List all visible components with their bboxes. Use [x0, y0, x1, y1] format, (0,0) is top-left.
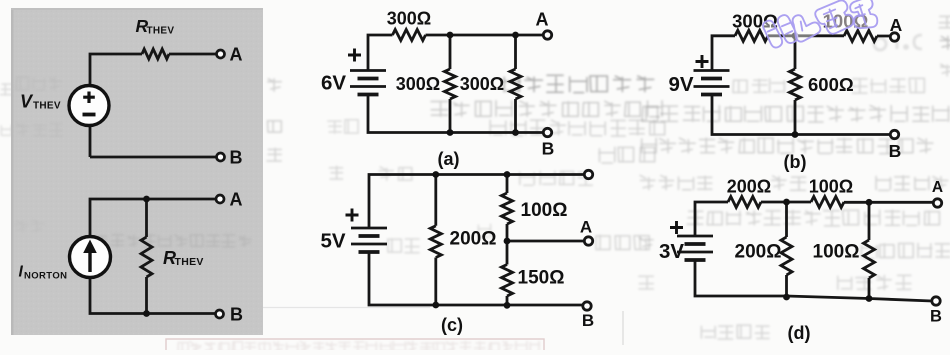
resistor 100ohm series (b) [844, 31, 877, 42]
wire: Thevenin bottom [90, 156, 217, 159]
terminal A (Norton) [216, 195, 224, 203]
circuit (b): wires [712, 36, 890, 135]
junction dot bottom (Norton) [143, 310, 150, 317]
terminal B (c) [583, 302, 591, 310]
resistor R_THEV (vertical, Norton) [145, 199, 148, 314]
terminal B (Thevenin) [217, 153, 225, 161]
wire: Norton top [90, 199, 216, 314]
svg-text:5V: 5V [321, 230, 346, 253]
bleed text row [599, 147, 655, 163]
bleed text row [328, 120, 358, 133]
watermark (purple bubble characters) [762, 0, 879, 49]
svg-text:THEV: THEV [175, 256, 204, 268]
battery 3V: plates [677, 236, 713, 260]
circuit (c): wires [369, 175, 585, 306]
svg-text:B: B [230, 148, 243, 168]
bleed text row [267, 148, 281, 161]
svg-text:B: B [542, 139, 555, 159]
bleed text row [640, 175, 712, 189]
svg-text:A: A [890, 15, 903, 35]
bleed text row [1, 125, 12, 135]
battery 5V: plates [351, 228, 387, 252]
svg-text:THEV: THEV [147, 26, 175, 37]
svg-text:B: B [582, 311, 594, 330]
bleed heading ghost [874, 35, 922, 50]
resistor R_THEV (horizontal) [142, 49, 169, 59]
gray panel background [11, 8, 263, 335]
resistor 300ohm series (b) [735, 30, 768, 41]
bleed text row [268, 79, 282, 91]
bleed text row [94, 235, 251, 248]
bleed text row [388, 239, 419, 253]
svg-text:(d): (d) [788, 323, 811, 343]
bleed text row [17, 123, 63, 136]
arrow inside current source [88, 248, 91, 272]
battery 9V: plates [694, 71, 730, 96]
bleed text row [687, 210, 939, 226]
bleed text row [431, 101, 662, 117]
label + (d) [670, 221, 683, 234]
resistor 200ohm series (d) [728, 197, 761, 208]
svg-text:I: I [19, 264, 24, 281]
bleed text row [596, 235, 649, 249]
svg-text:200Ω: 200Ω [450, 229, 497, 250]
bleed text row [478, 224, 490, 237]
svg-text:6V: 6V [321, 72, 346, 95]
bleed text row [771, 176, 805, 190]
circuit (a): wires top/bottom [368, 35, 544, 133]
junction dot top (Norton) [143, 196, 150, 203]
resistor 200ohm shunt (d) [785, 202, 788, 297]
resistor 300ohm shunt 2 (a) [514, 35, 517, 133]
svg-text:150Ω: 150Ω [518, 268, 565, 289]
svg-text:B: B [930, 308, 942, 326]
faint box around (d) caption [622, 311, 624, 345]
bleed text row [640, 238, 654, 249]
svg-text:NORTON: NORTON [24, 271, 67, 282]
resistor 150ohm (c) [502, 265, 513, 297]
terminal B (d) [932, 297, 940, 305]
bleed text row [876, 176, 948, 191]
current source I_NORTON (circle) [70, 237, 111, 278]
resistor 300ohm series (a) [393, 30, 426, 41]
minus sign inside source [83, 113, 96, 117]
resistor 100ohm shunt (d) [868, 202, 871, 298]
bleed text row [15, 220, 44, 232]
bleed text row [379, 167, 412, 180]
bleed text row [940, 36, 950, 49]
resistor 300ohm shunt 1 (a) [449, 35, 452, 133]
svg-text:300Ω: 300Ω [387, 9, 431, 29]
junction dots (d) [783, 199, 790, 206]
bleed text row [268, 121, 282, 132]
junction dots (c) [432, 171, 439, 178]
svg-text:600Ω: 600Ω [808, 74, 854, 95]
bleed text row [178, 341, 540, 353]
label + (a) [348, 49, 361, 62]
terminal A (c) [584, 237, 592, 245]
svg-text:A: A [932, 179, 943, 196]
svg-text:300Ω: 300Ω [396, 74, 440, 94]
faint table box bottom left [166, 339, 544, 353]
bleed text row [504, 75, 654, 92]
svg-text:200Ω: 200Ω [735, 242, 782, 263]
svg-text:A: A [580, 218, 592, 237]
svg-text:A: A [536, 10, 549, 30]
terminal A (Thevenin) [217, 50, 225, 58]
bleed text row [490, 120, 665, 136]
circuit (d): wires [695, 202, 933, 301]
bleed text row [641, 138, 933, 154]
battery 6V: plates [350, 71, 386, 96]
plus sign inside source [83, 92, 95, 104]
resistor 600ohm shunt (b) [794, 36, 797, 135]
terminal A (a) [543, 31, 551, 39]
bleed text row [733, 79, 785, 93]
bleed text row [639, 276, 653, 289]
wire: Thevenin top loop [90, 54, 217, 157]
resistor 100ohm (c) [502, 193, 513, 224]
svg-text:V: V [20, 92, 34, 112]
svg-text:THEV: THEV [33, 101, 61, 112]
resistor 200ohm shunt (c) [430, 226, 441, 258]
terminal B (b) [890, 130, 898, 138]
svg-text:B: B [230, 305, 243, 325]
svg-text:200Ω: 200Ω [727, 177, 771, 197]
svg-text:(a): (a) [438, 149, 460, 169]
faint hline right of panel [263, 307, 430, 309]
label + (b) [696, 55, 709, 68]
svg-text:B: B [889, 141, 902, 161]
svg-text:100Ω: 100Ω [521, 200, 568, 221]
svg-text:3V: 3V [659, 240, 684, 263]
bleed text row [16, 77, 61, 90]
bleed text row [852, 78, 925, 93]
resistor 100ohm series (d) [811, 197, 844, 208]
junction dots (a) [447, 32, 454, 39]
svg-text:100Ω: 100Ω [813, 242, 860, 263]
svg-text:A: A [230, 190, 243, 210]
svg-text:A: A [230, 45, 243, 65]
label + (c) [346, 209, 359, 222]
bleed text row [330, 166, 343, 179]
terminal B (Norton) [216, 310, 224, 318]
terminal top (c, unlabeled) [584, 170, 592, 178]
bleed text row [941, 64, 950, 76]
voltage source V_THEV (circle) [69, 86, 109, 126]
terminal A (b) [890, 33, 898, 41]
terminal A (d) [933, 199, 941, 207]
terminal B (a) [543, 128, 551, 136]
bleed text row [701, 325, 769, 339]
svg-text:(c): (c) [441, 315, 463, 335]
bleed text row [1, 84, 12, 95]
bleed text row [861, 243, 949, 258]
svg-text:100Ω: 100Ω [809, 177, 853, 197]
bleed text row [939, 16, 950, 27]
bleed text row [838, 275, 911, 289]
svg-text:(b): (b) [784, 152, 807, 172]
junction dots (b) [792, 32, 799, 39]
bleed text row [520, 171, 593, 185]
svg-text:9V: 9V [669, 73, 694, 96]
bleed text row [642, 106, 949, 122]
svg-text:300Ω: 300Ω [460, 74, 504, 94]
